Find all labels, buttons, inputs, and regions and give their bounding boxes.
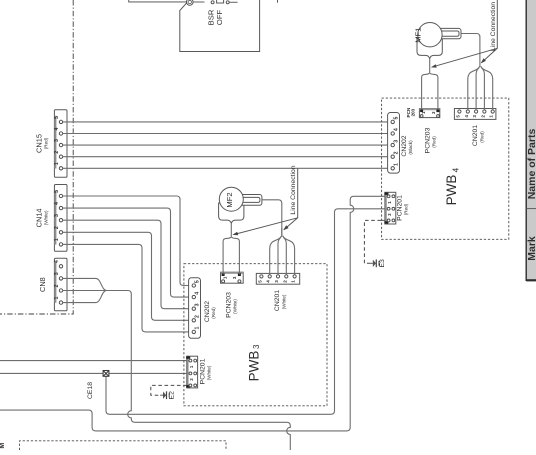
svg-text:CN201: CN201 (472, 125, 479, 146)
connector PCN201 (White) on PWB3 (186, 356, 197, 388)
svg-text:2: 2 (393, 151, 399, 154)
svg-text:1: 1 (54, 296, 60, 299)
wire CN15-3 to CN202 pin3 (63, 144, 391, 146)
terminal tick (277, 0, 279, 3)
wire (229, 1, 237, 3)
svg-text:4: 4 (194, 292, 200, 295)
wire CN14-1 to CN202red pin1 (63, 244, 192, 332)
svg-text:MF2: MF2 (225, 192, 234, 207)
svg-text:1: 1 (54, 162, 60, 165)
svg-text:1: 1 (223, 276, 228, 279)
svg-text:CN202: CN202 (204, 301, 211, 322)
svg-text:4: 4 (54, 260, 60, 263)
motor MF2 shaft (238, 195, 262, 206)
svg-text:(White): (White) (44, 210, 49, 225)
svg-text:E3: E3 (379, 259, 386, 268)
wire CN14-3 to CN202red pin3 (63, 220, 192, 309)
connector PCN201 (Red) on PWB4 (384, 192, 395, 224)
svg-text:CN8: CN8 (38, 277, 47, 292)
motor MF1 shaft (437, 28, 461, 38)
svg-text:(Red): (Red) (404, 203, 409, 215)
wire CN15-2 to CN202 pin2 (63, 156, 391, 158)
svg-text:CN202: CN202 (401, 135, 408, 156)
svg-text:5: 5 (194, 280, 200, 283)
wire (193, 1, 204, 3)
connector CE18 (square with X) (103, 371, 109, 377)
wire CN14-4 to CN202red pin4 (63, 208, 192, 297)
svg-text:203: 203 (410, 108, 415, 116)
svg-text:(White): (White) (207, 365, 212, 380)
wire MF1 stem to cable (429, 58, 431, 73)
svg-text:CN15: CN15 (35, 134, 44, 153)
wire CN14-2 to CN202red pin2 (63, 232, 192, 320)
svg-text:3: 3 (232, 276, 237, 279)
svg-text:1: 1 (54, 238, 60, 241)
svg-text:PCN201: PCN201 (199, 358, 206, 384)
svg-text:(Red): (Red) (211, 307, 216, 319)
svg-text:CE18: CE18 (87, 382, 94, 399)
motor MF1 bracket (417, 39, 442, 58)
wire CN15-5 to CN202 pin5 (63, 121, 391, 123)
svg-text:(Red): (Red) (432, 136, 437, 148)
svg-text:(Red): (Red) (479, 131, 484, 143)
svg-text:5: 5 (54, 116, 60, 119)
cable MF2 to PCN203 (right side) (232, 237, 240, 274)
svg-text:3: 3 (472, 115, 477, 118)
svg-text:1: 1 (194, 327, 200, 330)
svg-text:4: 4 (393, 128, 399, 131)
parts table sidebar (526, 0, 536, 281)
svg-text:Mark: Mark (526, 236, 536, 261)
connector CN201 (Red) on PWB4 (454, 109, 496, 120)
svg-text:1: 1 (489, 115, 494, 118)
bottom dashed box (PWB below, clipped) (20, 441, 227, 450)
svg-text:CN201: CN201 (274, 290, 281, 311)
wire CN15-4 to CN202 pin4 (63, 133, 391, 135)
dashed wire PCN201red pin3 to ground E3 (364, 220, 385, 263)
wire CN8-2 into cable merge (63, 290, 107, 292)
switch lamp (double circle) (187, 0, 194, 5)
svg-text:(White): (White) (281, 294, 286, 309)
svg-text:2: 2 (54, 151, 60, 154)
svg-text:PCN201: PCN201 (396, 195, 403, 221)
svg-text:5: 5 (54, 190, 60, 193)
svg-text:PWB: PWB (444, 175, 459, 206)
svg-text:5: 5 (257, 280, 262, 283)
wire CE18 branch to PCN201red pin2 (106, 209, 385, 414)
svg-text:1: 1 (291, 280, 296, 283)
PWB 4 board (dashed) (382, 98, 509, 239)
svg-text:3: 3 (393, 140, 399, 143)
PWB 3 board (dashed) (184, 264, 327, 406)
svg-text:4: 4 (452, 167, 461, 172)
svg-text:(Red): (Red) (44, 137, 49, 149)
label PCN 203 (small, beside box) (406, 107, 416, 117)
svg-text:E2: E2 (169, 391, 176, 400)
svg-text:PWB: PWB (246, 351, 261, 382)
leader Line Connection (PWB3) (232, 168, 297, 235)
svg-text:2: 2 (282, 280, 287, 283)
svg-text:Line Connection: Line Connection (490, 2, 497, 51)
svg-text:PCN203: PCN203 (424, 127, 431, 153)
svg-text:OFF: OFF (215, 10, 224, 26)
wires CN201white bundle up to junction (270, 228, 295, 275)
motor MF2 bracket (219, 203, 244, 223)
svg-text:3: 3 (54, 214, 60, 217)
svg-text:2: 2 (54, 226, 60, 229)
ground E2 (160, 391, 169, 399)
label PWB 4 (444, 167, 461, 205)
cable MF2 to PCN203 (left side) (223, 237, 231, 274)
wires CN201red bundle up to junction (468, 61, 493, 110)
wire to switch lamp (129, 0, 187, 2)
wire CN8-1 into cable merge (63, 291, 107, 303)
connector CN8 (54, 258, 67, 311)
wire MF2 stem to cable (230, 223, 232, 237)
svg-text:3: 3 (54, 139, 60, 142)
svg-text:4: 4 (54, 127, 60, 130)
cable from CN8 merge down to bottom edge (107, 291, 290, 451)
svg-text:1: 1 (393, 163, 399, 166)
svg-text:CN14: CN14 (35, 208, 44, 227)
wire CN14-5 to CN202red pin5 (63, 196, 192, 286)
svg-text:4: 4 (54, 202, 60, 205)
motor MF2 body (219, 187, 243, 211)
svg-text:3: 3 (194, 303, 200, 306)
wire MF2 shaft to junction (262, 200, 282, 236)
wire CN15-1 to CN202 pin1 (63, 167, 391, 169)
dashed wire PCN201white pin3 to ground E2 (151, 385, 187, 395)
svg-text:Name of Parts: Name of Parts (526, 129, 536, 200)
svg-text:(Black): (Black) (408, 140, 413, 155)
svg-text:5: 5 (455, 115, 460, 118)
connector CN202 (Red) on PWB3 (189, 278, 201, 339)
leader Line Connection (PWB4) (431, 0, 497, 68)
svg-text:PCN203: PCN203 (225, 292, 232, 318)
svg-text:2: 2 (194, 315, 200, 318)
wire MF1 shaft to junction (461, 34, 480, 62)
cable MF1 to PCN203red (left side) (422, 73, 430, 109)
BSR OFF box (180, 0, 260, 52)
ground E3 (370, 259, 379, 267)
svg-text:M: M (0, 443, 6, 449)
connector PCN203 (White) on PWB3 (221, 272, 244, 283)
wire to PCN201white pin2 (0, 372, 187, 374)
svg-text:MF1: MF1 (414, 28, 423, 43)
svg-text:2: 2 (480, 115, 485, 118)
svg-text:2: 2 (54, 284, 60, 287)
unit boundary dash-dot line (0, 0, 73, 314)
connector CN201 (White) on PWB3 (256, 273, 299, 284)
connector CN202 (Black) on PWB4 (388, 113, 400, 174)
svg-text:4: 4 (266, 280, 271, 283)
svg-text:3: 3 (54, 272, 60, 275)
svg-text:3: 3 (274, 280, 279, 283)
svg-text:3: 3 (252, 344, 261, 349)
motor MF1 body (418, 23, 442, 47)
wire to PCN201white pin1 (0, 360, 187, 362)
svg-text:(White): (White) (233, 299, 238, 314)
switch contacts (clipped at top) (211, 0, 229, 4)
cable MF1 to PCN203red (right side) (430, 73, 438, 109)
svg-text:4: 4 (464, 115, 469, 118)
connector CN14 (White) (54, 185, 67, 252)
wire CN8-3 into cable merge (63, 278, 107, 290)
connector PCN203 (Red) on PWB4 (419, 109, 439, 118)
label PWB 3 (246, 344, 261, 381)
svg-text:Line Connection: Line Connection (290, 165, 297, 214)
connector CN15 (Red) (54, 110, 67, 178)
wire to PCN201red pin1 (0, 196, 385, 431)
svg-text:5: 5 (393, 117, 399, 120)
